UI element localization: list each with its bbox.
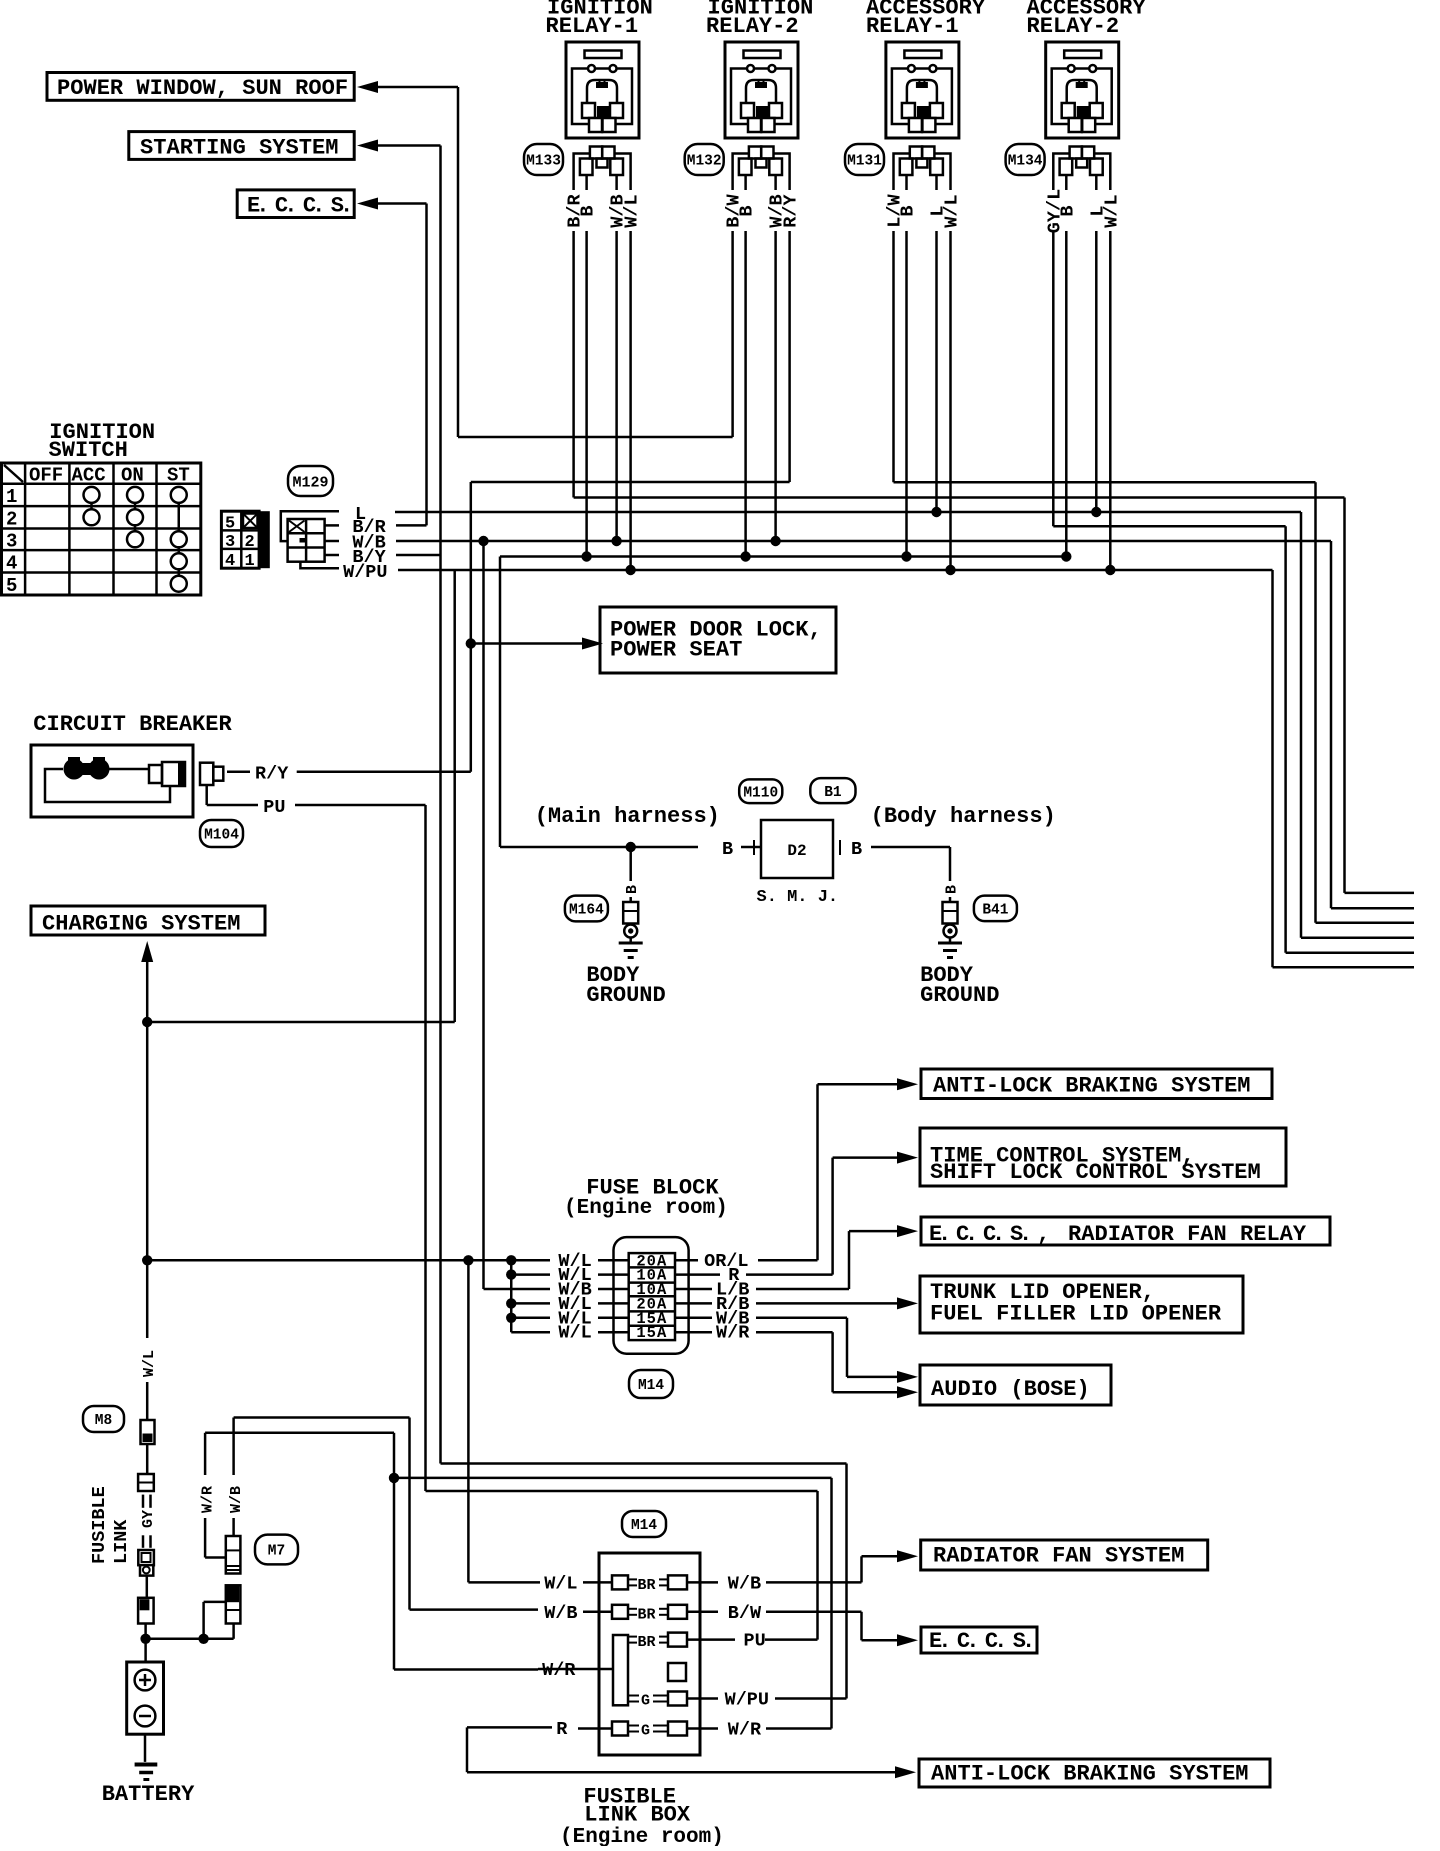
svg-text:B: B (898, 205, 919, 216)
svg-text:RELAY-2: RELAY-2 (706, 14, 799, 39)
wire fuse row2 into fuse (598, 1273, 629, 1276)
wire x409 W/B down to link box row2 (408, 1418, 411, 1610)
svg-text:M129: M129 (292, 474, 328, 491)
wire OR/L riser to ANTI-LOCK (818, 1084, 898, 1260)
junction relay4 B on B-bus (1061, 551, 1071, 561)
wire relay1 W/B down to W/B-bus (615, 231, 618, 541)
svg-text:G: G (641, 1693, 650, 1710)
wire POWER WINDOW feed vertical x458 (457, 87, 460, 437)
connector label M14 fusible link box (622, 1511, 666, 1537)
wire L/B riser to ECCS RADIATOR FAN RELAY (849, 1231, 897, 1289)
svg-text:ANTI-LOCK BRAKING SYSTEM: ANTI-LOCK BRAKING SYSTEM (933, 1074, 1251, 1099)
arrowhead TIME CONTROL SYSTEM (897, 1152, 918, 1164)
wire W/R row6 to riser (766, 1727, 832, 1730)
table ignition switch (2, 463, 201, 597)
svg-text:E. C. C. S.: E. C. C. S. (247, 194, 349, 219)
wire into M7 lower connector left (204, 1601, 226, 1604)
connector M129 face symbol (281, 511, 339, 568)
connector M7 upper symbol (226, 1536, 241, 1574)
link box row1 W/L-W/B fusible link (544, 1573, 718, 1594)
ignition switch contact circles (84, 487, 187, 592)
wire right bundle vertical x1331 (1330, 541, 1333, 908)
connector label M104 (200, 820, 243, 847)
svg-text:4: 4 (225, 552, 235, 571)
wire fusible link chain lower (146, 1576, 149, 1598)
box POWER DOOR LOCK, POWER SEAT (600, 607, 836, 673)
svg-text:1: 1 (245, 552, 255, 571)
svg-text:CIRCUIT BREAKER: CIRCUIT BREAKER (33, 712, 232, 737)
wire fuse row4 into fuse (598, 1302, 629, 1305)
wire fusible link chain (146, 1444, 149, 1474)
wire E.C.C.S. vertical x426 (425, 204, 428, 526)
wire fuse row1 into fuse (598, 1259, 629, 1262)
wire relay2 R/Y down to alpha-line (788, 231, 791, 482)
relay K1 IGNITION-RELAY-1 symbol (566, 42, 639, 138)
fusible link terminal symbol (138, 1598, 154, 1624)
wire STARTING SYSTEM vertical x440 (439, 146, 442, 556)
connector M7 lower symbol (226, 1585, 241, 1623)
fusible link double-bar upper (143, 1495, 151, 1508)
box AUDIO (BOSE) (920, 1365, 1111, 1405)
svg-text:B: B (851, 839, 862, 860)
svg-text:B: B (1057, 205, 1078, 216)
svg-text:POWER WINDOW, SUN ROOF: POWER WINDOW, SUN ROOF (57, 76, 348, 101)
svg-text:OFF: OFF (29, 465, 63, 487)
link box row6 R to G link to W/R (556, 1719, 718, 1740)
wire fuse row2 right R (675, 1273, 833, 1276)
svg-text:BR: BR (638, 1634, 656, 1651)
relay IGNITION RELAY-2 title (706, 0, 813, 39)
wire x467 down to ANTI-LOCK feed (466, 1727, 469, 1772)
wire POWER WINDOW feed horizontal (377, 86, 458, 89)
link box lone square row4 (668, 1663, 686, 1681)
wire up into M7 lower connector (232, 1624, 235, 1639)
wire fuse row2 left W/L (511, 1273, 550, 1276)
arrowhead TRUNK LID OPENER (897, 1297, 918, 1309)
wire y1463 line x440 to W/PU riser (441, 1462, 847, 1465)
wire 497-bus relay1 B/R to right bundle (574, 496, 1345, 499)
svg-text:M132: M132 (687, 154, 722, 170)
wire fuse row6 left W/L (511, 1331, 550, 1334)
junction body ground branch M164 (626, 842, 636, 852)
svg-text:R: R (556, 1719, 568, 1740)
junction feed bus row5 (506, 1313, 516, 1323)
svg-text:RELAY-1: RELAY-1 (866, 14, 959, 39)
battery symbol (127, 1662, 164, 1734)
arrowhead E.C.C.S. RADIATOR FAN RELAY (897, 1225, 918, 1237)
connector M164 ground terminal (623, 902, 638, 938)
junction relay4 W/L on W/PU-bus (1105, 565, 1115, 575)
connector label M7 (255, 1535, 298, 1565)
svg-text:3: 3 (6, 531, 17, 553)
fusible link double-bar lower (143, 1535, 151, 1548)
svg-text:W/R: W/R (716, 1323, 750, 1344)
svg-text:W/PU: W/PU (725, 1690, 769, 1711)
wire W/R row4 left (394, 1668, 538, 1671)
junction W/B-bus to fuse feed (478, 536, 488, 546)
svg-text:M14: M14 (631, 1518, 657, 1534)
junction R/Y net to POWER DOOR LOCK (466, 638, 476, 648)
box ANTI-LOCK BRAKING SYSTEM bottom (919, 1759, 1270, 1787)
svg-text:1: 1 (6, 486, 17, 508)
wire STARTING SYSTEM horizontal (377, 144, 441, 147)
connector label B41 (974, 896, 1017, 922)
svg-text:(Engine room): (Engine room) (564, 1197, 728, 1220)
wire W/R M7 riser (205, 1433, 394, 1558)
relay ACCESSORY RELAY-2 title (1027, 0, 1147, 39)
svg-text:PU: PU (263, 797, 285, 818)
box CHARGING SYSTEM (31, 906, 265, 937)
wire 437-line POWER WINDOW to relay2 B/W (458, 436, 733, 439)
svg-text:CHARGING SYSTEM: CHARGING SYSTEM (42, 912, 240, 937)
junction relay1 W/B on W/B-bus (611, 536, 621, 546)
wire B into S.M.J. box (741, 846, 761, 849)
wire E.C.C.S. horizontal (377, 202, 427, 205)
wire fuse row3 into fuse (598, 1288, 629, 1291)
box RADIATOR FAN SYSTEM (921, 1540, 1208, 1570)
connector M104 symbol (200, 763, 258, 805)
wire y1772 ANTI-LOCK feed (467, 1771, 895, 1774)
connector label M8 (83, 1406, 124, 1432)
text IGNITION SWITCH title (49, 420, 156, 463)
box E.C.C.S. (237, 190, 354, 219)
connector M133 pin symbol (574, 147, 631, 191)
wire to POWER DOOR LOCK arrow (471, 642, 582, 645)
arrowhead into POWER WINDOW box (357, 81, 378, 93)
box ANTI-LOCK BRAKING SYSTEM top (921, 1069, 1272, 1099)
wire W/L row1 left (468, 1581, 540, 1584)
wire to battery junction (144, 1624, 147, 1639)
text BODY GROUND left (586, 963, 665, 1008)
wire x394 down to link box W/R row4 (393, 1478, 396, 1670)
junction relay3 B on B-bus (901, 551, 911, 561)
svg-text:M133: M133 (526, 154, 561, 170)
svg-text:2: 2 (6, 508, 17, 530)
wire relay2 B/W down to 437-line (731, 231, 734, 437)
wire vertical x440 B/Y down across R/Y to link box net (439, 555, 442, 772)
arrowhead AUDIO BOSE upper (897, 1371, 918, 1383)
fusible link symbol 1 (141, 1420, 155, 1444)
junction feed bus row2 (506, 1269, 516, 1279)
svg-text:B: B (578, 205, 599, 216)
svg-text:M164: M164 (569, 903, 604, 919)
wire right bundle vertical x1285 (1284, 526, 1287, 952)
wire right bundle exit y967 (1273, 966, 1415, 969)
box STARTING SYSTEM (129, 132, 354, 161)
svg-text:M134: M134 (1008, 154, 1043, 170)
svg-text:FUSIBLE: FUSIBLE (89, 1486, 110, 1564)
relay IGNITION RELAY-1 title (546, 0, 653, 39)
junction W/L to ignition-switch feed (142, 1017, 152, 1027)
svg-text:PU: PU (744, 1631, 766, 1652)
svg-text:R/Y: R/Y (781, 193, 802, 227)
svg-text:POWER SEAT: POWER SEAT (610, 638, 742, 663)
arrowhead AUDIO BOSE lower (897, 1386, 918, 1398)
junction relay2 W/B on W/B-bus (770, 536, 780, 546)
wire right bundle vertical x1272 (1271, 570, 1274, 967)
connector label M14 fuse block (629, 1370, 673, 1398)
wire fuse row6 right W/R (675, 1332, 897, 1392)
wire x394 from W/R corner to junction (393, 1433, 396, 1478)
svg-text:B: B (944, 885, 961, 894)
wire fuse row4 left W/L (511, 1302, 550, 1305)
wire relay1 B down to B-bus (585, 231, 588, 557)
wire vertical x470 R/Y net down to circuit breaker line (470, 482, 473, 772)
wire R riser to TIME CONTROL (833, 1158, 897, 1275)
svg-text:W/R: W/R (200, 1486, 217, 1513)
svg-text:BR: BR (638, 1577, 656, 1594)
wire fuse row5 into fuse (598, 1317, 629, 1320)
svg-text:5: 5 (6, 575, 17, 597)
svg-text:2: 2 (245, 533, 255, 552)
svg-text:15A: 15A (636, 1324, 667, 1342)
wire battery to ground (144, 1734, 147, 1762)
svg-text:M8: M8 (95, 1413, 112, 1429)
svg-text:(Engine room): (Engine room) (560, 1826, 724, 1846)
text FUSIBLE LINK BOX caption (560, 1785, 724, 1850)
arrowhead into STARTING SYSTEM box (357, 140, 378, 152)
wire fuse row3 left W/B (484, 1288, 551, 1291)
arrowhead ANTI-LOCK BRAKING SYSTEM bottom (895, 1766, 916, 1778)
S.M.J. box D2 (754, 820, 840, 878)
arrowhead RADIATOR FAN SYSTEM (897, 1550, 918, 1562)
svg-text:(Body harness): (Body harness) (871, 804, 1056, 829)
wire right bundle vertical x1301 (1300, 512, 1303, 938)
wire W/B-bus y541 (396, 540, 1331, 543)
junction relay4 L on L-bus (1091, 507, 1101, 517)
svg-text:W/L: W/L (1101, 194, 1122, 227)
wire B down to B41 ground (949, 847, 952, 881)
svg-text:RELAY-2: RELAY-2 (1027, 14, 1120, 39)
svg-text:B1: B1 (824, 785, 842, 801)
svg-text:ON: ON (121, 465, 144, 487)
arrowhead POWER DOOR LOCK (582, 638, 603, 650)
wire L-bus y512 (395, 511, 1301, 514)
arrowhead into E.C.C.S. box (357, 198, 378, 210)
connector label B1 (810, 778, 855, 803)
svg-text:4: 4 (6, 553, 17, 575)
wire W/PU-bus y570 (398, 569, 1273, 572)
svg-text:B: B (722, 839, 733, 860)
wire right bundle exit y892 (1345, 892, 1415, 895)
wire PU line (295, 804, 426, 807)
wire fuse row1 right OR/L (675, 1259, 818, 1262)
svg-text:M104: M104 (204, 828, 239, 844)
wire fuse row3 right L/B (675, 1288, 849, 1291)
fuse block rounded box (614, 1237, 689, 1354)
svg-text:5: 5 (225, 515, 235, 534)
wire riser x817 down to PU row3 (816, 1491, 819, 1640)
svg-text:B: B (737, 205, 758, 216)
svg-text:W/B: W/B (728, 1573, 761, 1594)
text FUSIBLE LINK vertical (89, 1486, 132, 1564)
wire riser x846 down to W/PU row5 (845, 1464, 848, 1699)
svg-text:W/B: W/B (228, 1486, 245, 1513)
box E.C.C.S. bottom (921, 1627, 1037, 1654)
arrowhead ANTI-LOCK BRAKING SYSTEM top (897, 1078, 918, 1090)
wire B main harness to S.M.J. (500, 846, 698, 849)
junction feed bus row1 (506, 1255, 516, 1265)
svg-text:AUDIO (BOSE): AUDIO (BOSE) (931, 1377, 1090, 1402)
link box row2 W/B-B/W fusible link (544, 1603, 718, 1624)
relay ACCESSORY RELAY-1 title (866, 0, 986, 39)
wire B stub into M164 terminal (629, 897, 632, 902)
junction relay1 W/L on W/PU-bus (625, 565, 635, 575)
svg-text:W/R: W/R (542, 1660, 576, 1681)
connector B41 ground terminal (943, 902, 958, 938)
ground symbol battery (135, 1765, 158, 1780)
wire W/B M7 riser (234, 1418, 410, 1537)
svg-text:BR: BR (638, 1606, 656, 1623)
fusible link box outline (599, 1553, 700, 1755)
wire W/R row4 into tall terminal (538, 1668, 613, 1671)
junction W/L to fuse row1 (142, 1255, 152, 1265)
wire battery node to M7 branch (146, 1638, 234, 1641)
svg-text:W/R: W/R (728, 1720, 762, 1741)
svg-text:W/L: W/L (622, 194, 643, 227)
relay K2 IGNITION-RELAY-2 symbol (725, 42, 798, 138)
wire B down to M164 ground (629, 847, 632, 881)
wire W/B row2 left (410, 1608, 539, 1611)
junction battery node to W/R branch (198, 1634, 208, 1644)
wire alpha-line y482 (R/Y net) (471, 481, 790, 484)
svg-text:W/L: W/L (544, 1573, 577, 1594)
svg-text:LINK BOX: LINK BOX (584, 1803, 691, 1828)
connector M132 pin symbol (733, 147, 790, 191)
wire right bundle exit y952 (1286, 951, 1414, 954)
ground symbol body ground right (938, 938, 962, 958)
wire relay3 B down to B-bus (905, 231, 908, 557)
wire y1478 line to W/R riser (394, 1477, 832, 1480)
svg-text:W/B: W/B (544, 1603, 577, 1624)
wire B/R line M129 to ECCS vertical (396, 524, 427, 527)
svg-text:(Main harness): (Main harness) (535, 804, 720, 829)
relay K3 ACCESSORY-RELAY-1 symbol (886, 42, 959, 138)
wire relay4 L down to L-bus (1095, 231, 1098, 512)
junction relay1 B on B-bus (581, 551, 591, 561)
wire relay3 L/W down to beta-line (892, 231, 895, 482)
wire B stub into B41 terminal (949, 897, 952, 902)
wire GY/L-line relay4 to right bundle (1053, 525, 1285, 528)
wire fuse row6 into fuse (598, 1331, 629, 1334)
svg-text:W/PU: W/PU (343, 562, 387, 583)
wire right bundle exit y937 (1301, 937, 1414, 940)
wire B-bus y556 (500, 555, 1066, 558)
wire vertical x440 continues to y1463 line (439, 772, 442, 1464)
wire relay4 B down to B-bus (1065, 231, 1068, 557)
junction row1 to link box W/L drop (463, 1255, 473, 1265)
svg-text:B: B (624, 885, 641, 894)
wire relay4 W/L down to W/PU-bus (1109, 231, 1112, 570)
svg-text:M131: M131 (847, 154, 882, 170)
box TRUNK LID OPENER, FUEL FILLER LID OPENER (920, 1276, 1243, 1333)
wire PU row3 to riser (765, 1638, 818, 1641)
arrowhead up to CHARGING SYSTEM (141, 941, 153, 962)
connector M131 pin symbol (894, 147, 951, 191)
wire vertical x483 W/B to fuse row3 (482, 541, 485, 1289)
svg-text:S. M. J.: S. M. J. (757, 888, 839, 907)
svg-text:RADIATOR FAN SYSTEM: RADIATOR FAN SYSTEM (933, 1544, 1184, 1569)
connector label M129 (288, 466, 333, 496)
box TIME CONTROL SYSTEM, SHIFT LOCK CONTROL SYSTEM (920, 1128, 1286, 1186)
svg-text:FUEL FILLER LID OPENER: FUEL FILLER LID OPENER (930, 1302, 1222, 1327)
svg-text:ANTI-LOCK BRAKING SYSTEM: ANTI-LOCK BRAKING SYSTEM (931, 1762, 1249, 1787)
wire B/Y line M129 to STARTING vertical (396, 554, 441, 557)
wire W/PU row5 to riser (775, 1697, 847, 1700)
wire beta-line y482 relay3 L/W to right bundle (894, 481, 1316, 484)
wire relay4 GY/L down to GY/L-line (1052, 231, 1055, 526)
wire fuse row5 right W/B (675, 1318, 897, 1377)
wire relay2 B down to B-bus (744, 231, 747, 557)
box E.C.C.S., RADIATOR FAN RELAY (921, 1217, 1330, 1247)
wire R/Y line to x470 vertical (297, 770, 471, 773)
junction battery positive node (140, 1634, 150, 1644)
fusible link symbol 2 (138, 1474, 154, 1491)
svg-text:W/L: W/L (141, 1350, 158, 1377)
wire vertical x425 PU down to y1491 line (424, 805, 427, 1491)
svg-text:W/L: W/L (942, 194, 963, 227)
svg-text:STARTING SYSTEM: STARTING SYSTEM (140, 136, 338, 161)
wire y1491 PU line to riser (426, 1490, 818, 1493)
svg-text:ST: ST (167, 465, 190, 487)
wire right bundle vertical x1344 (1343, 498, 1346, 893)
junction relay3 L on L-bus (931, 507, 941, 517)
wire battery node down to battery (144, 1639, 147, 1662)
link box tall terminal rows3-4 (613, 1635, 628, 1705)
wire right bundle vertical x1315 (1314, 482, 1317, 923)
wire R row6 left (467, 1726, 552, 1729)
wire B/W row2 to ECCS bottom (766, 1612, 897, 1641)
svg-text:D2: D2 (787, 842, 806, 860)
arrowhead E.C.C.S. bottom (897, 1634, 918, 1646)
wire relay2 W/B down to W/B-bus (774, 231, 777, 541)
fusible link connector symbol (138, 1550, 154, 1576)
svg-text:B41: B41 (982, 903, 1008, 919)
svg-text:SHIFT LOCK CONTROL SYSTEM: SHIFT LOCK CONTROL SYSTEM (930, 1160, 1261, 1185)
wire relay1 W/L down to W/PU-bus (629, 231, 632, 570)
svg-text:GY: GY (140, 1510, 157, 1528)
junction W/R net at x394 (389, 1473, 399, 1483)
wire right bundle exit y908 (1331, 907, 1414, 910)
wire W/B row1 to RADIATOR FAN SYSTEM (766, 1556, 897, 1582)
wire fuse row5 left W/L (511, 1317, 550, 1320)
svg-text:E. C. C. S.: E. C. C. S. (929, 1629, 1031, 1654)
wire relay3 W/L down to W/PU-bus (949, 231, 952, 570)
wire W/L battery vertical x147 lower (146, 1382, 149, 1420)
svg-text:W/L: W/L (558, 1323, 591, 1344)
wire B-bus vertical x500 to S.M.J. (499, 557, 502, 848)
wire vertical x468 W/L to link box row1 (467, 1260, 470, 1582)
svg-text:R/Y: R/Y (255, 764, 289, 785)
junction relay2 B on B-bus (740, 551, 750, 561)
connector label M132 (685, 144, 724, 175)
wire right bundle exit y922 (1316, 922, 1415, 925)
connector M134 pin symbol (1053, 147, 1110, 191)
wire relay3 L down to L-bus (935, 231, 938, 512)
vertical feed bus x511 (510, 1260, 513, 1332)
relay K4 ACCESSORY-RELAY-2 symbol (1046, 42, 1119, 138)
svg-text:M110: M110 (743, 786, 778, 802)
fuse column (629, 1253, 675, 1340)
text BODY GROUND right (920, 963, 999, 1008)
wire fuse row1 left W/L (147, 1259, 550, 1262)
wire W/L battery vertical x147 upper (146, 958, 149, 1338)
svg-text:M7: M7 (268, 1544, 285, 1560)
wire W/L y1022 to x454 vertical (147, 1021, 455, 1024)
wire relay1 B/R down to 497-bus (572, 231, 575, 498)
wire riser x831 down to W/R row6 (830, 1478, 833, 1729)
svg-text:ACC: ACC (72, 465, 106, 487)
